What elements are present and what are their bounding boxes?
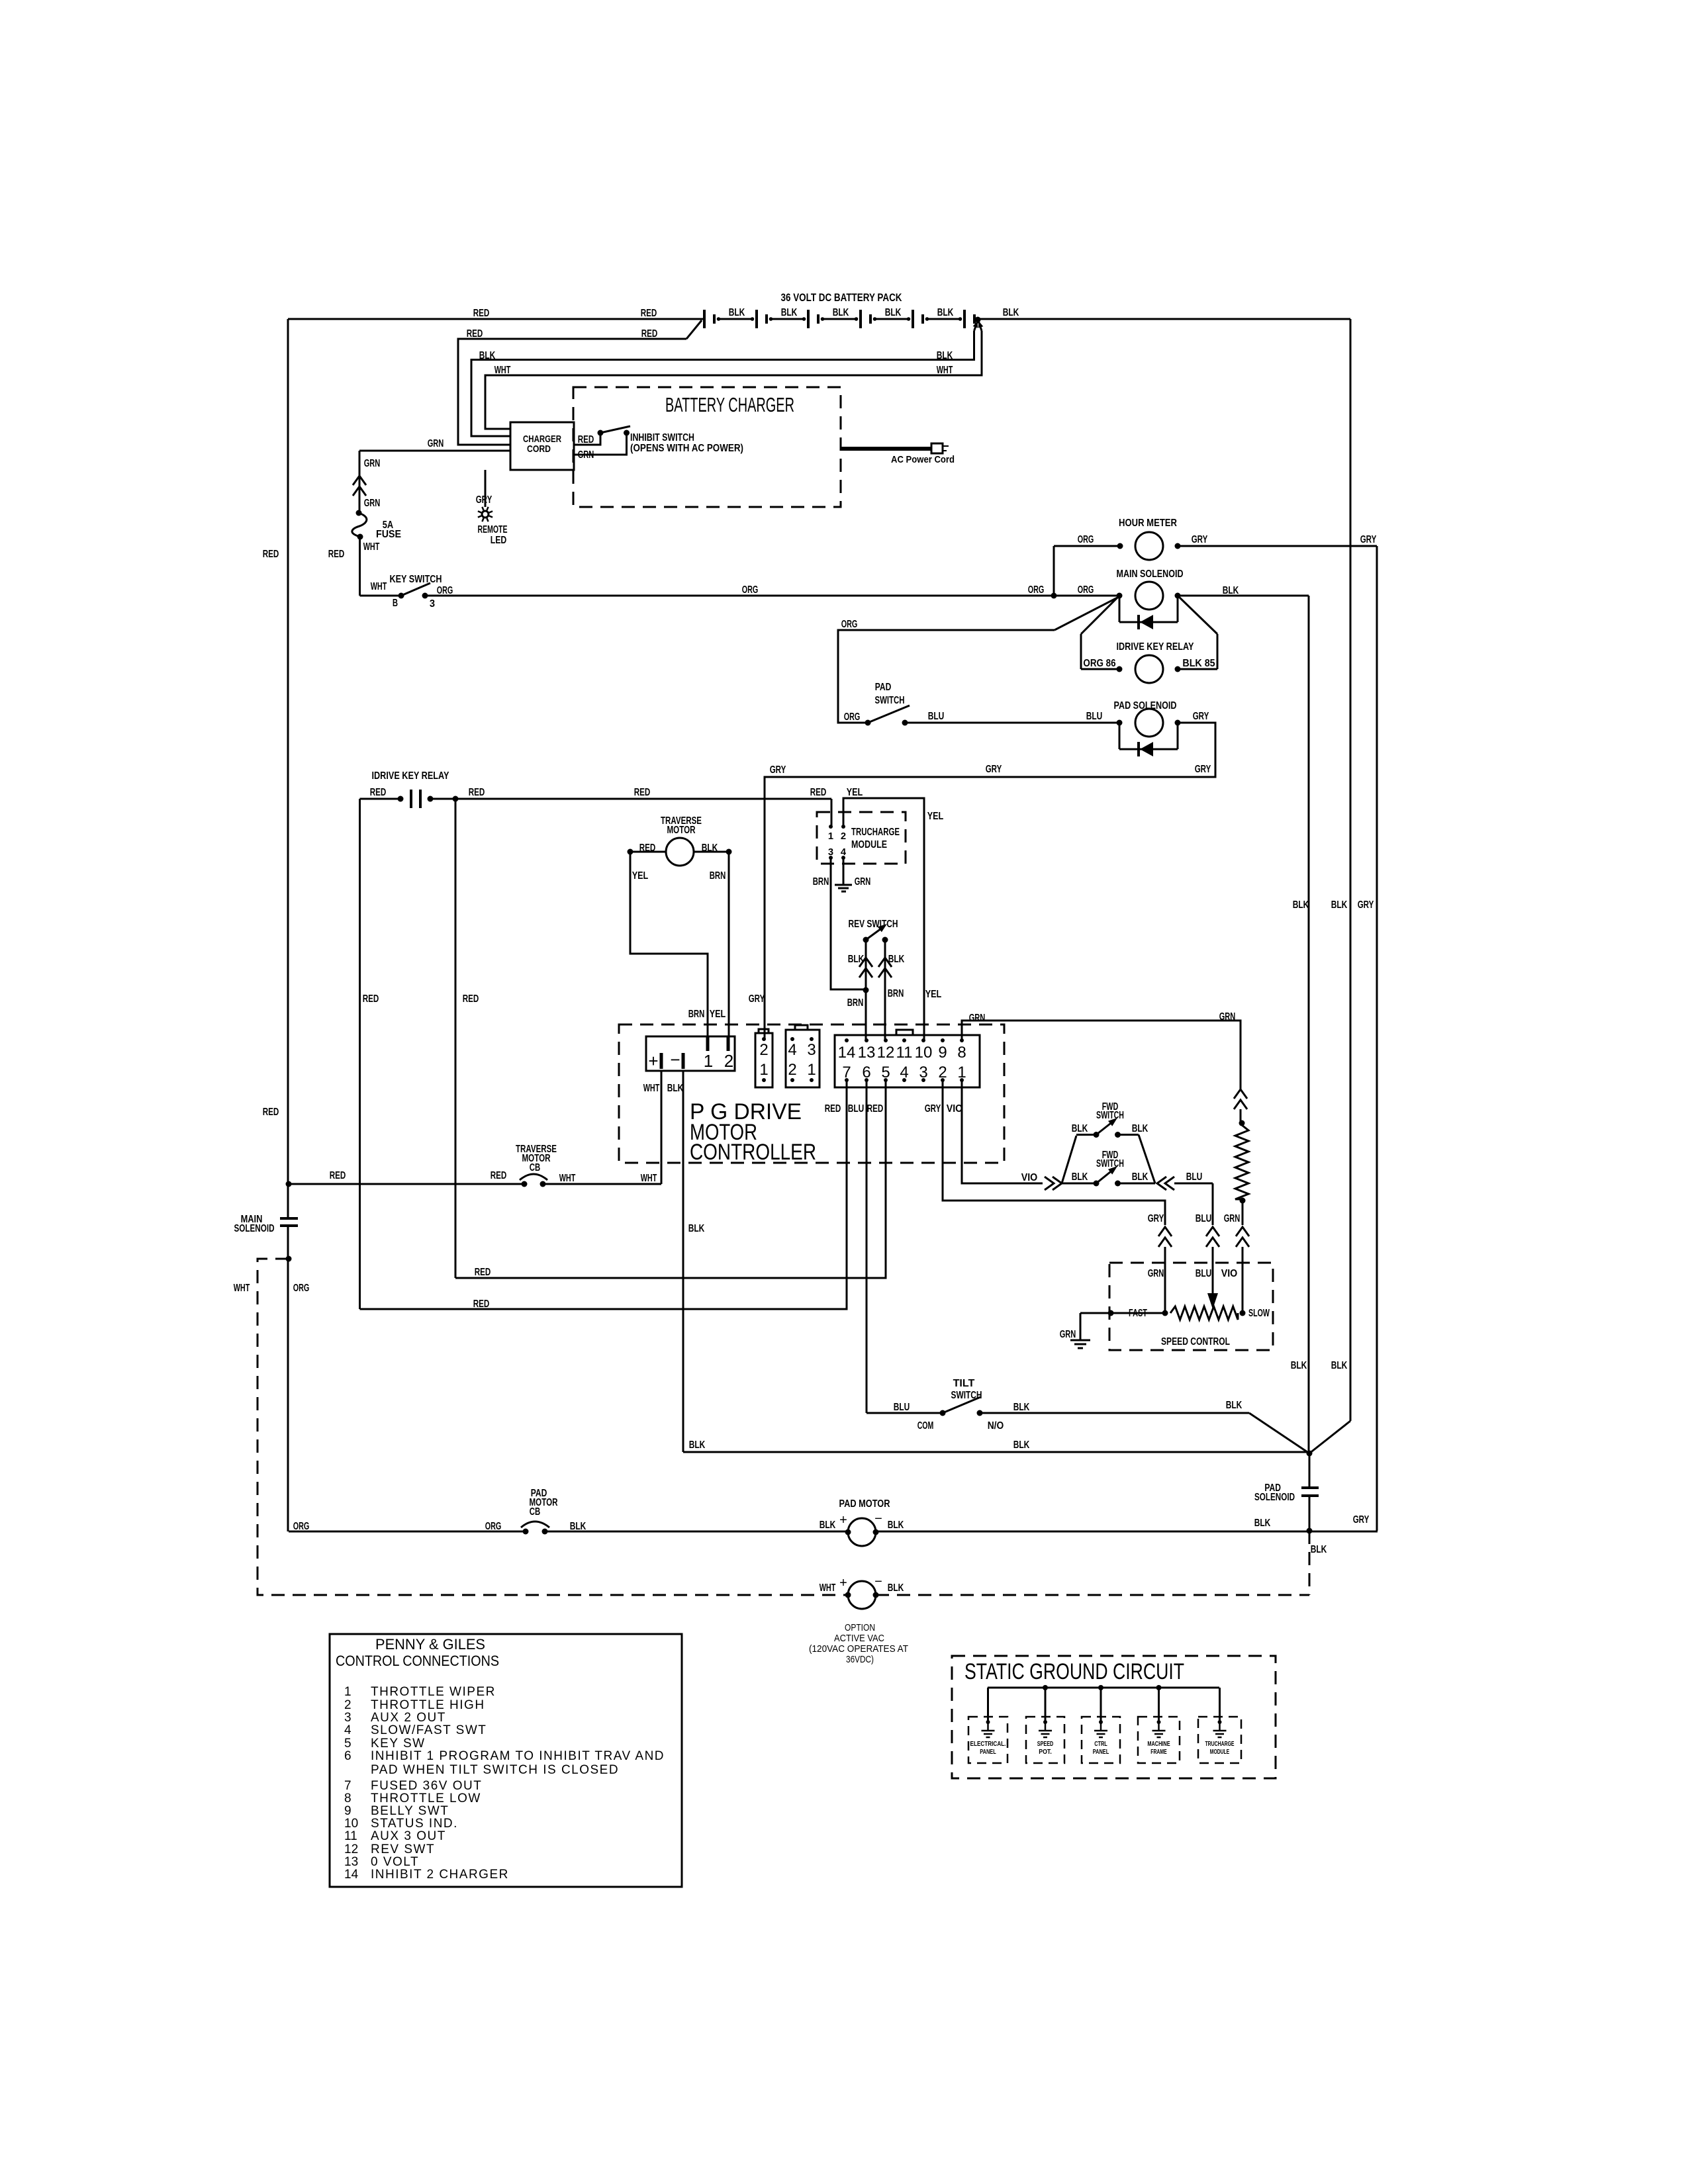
resistor R1 bottom terminal xyxy=(1240,1198,1246,1204)
svg-text:WHT: WHT xyxy=(363,541,380,553)
svg-text:SWITCH: SWITCH xyxy=(1096,1110,1124,1121)
label IDRIVE KEY RELAY xyxy=(1117,641,1194,653)
connector chevron BLU 1 xyxy=(1157,1177,1166,1190)
battery cell 5 long plate xyxy=(912,310,914,328)
label BLU xyxy=(894,1402,910,1413)
wire junction to fwd switch upper xyxy=(1062,1136,1076,1183)
idrive key relay coil K2 xyxy=(1135,655,1163,683)
label REMOTE xyxy=(478,524,508,535)
label 36VDC xyxy=(846,1654,874,1665)
relay enclosure to coil left xyxy=(1081,668,1119,670)
svg-text:(120VAC OPERATES AT: (120VAC OPERATES AT xyxy=(809,1643,908,1655)
svg-text:GRY: GRY xyxy=(1360,534,1377,545)
label RED xyxy=(473,308,490,319)
svg-text:ORG: ORG xyxy=(742,584,759,596)
label WHT xyxy=(494,365,511,376)
ground box label SPEED xyxy=(1037,1741,1054,1748)
label GRN xyxy=(1224,1213,1241,1224)
svg-text:PANEL: PANEL xyxy=(980,1749,996,1756)
svg-text:RED: RED xyxy=(634,787,651,798)
list item 6 text xyxy=(371,1749,665,1763)
svg-text:BLK: BLK xyxy=(1293,899,1309,911)
relay enclosure diagonal left xyxy=(1081,596,1119,634)
label RED xyxy=(263,1107,279,1118)
svg-text:MODULE: MODULE xyxy=(851,839,887,850)
list item 12 number xyxy=(344,1843,358,1856)
wire BRN trucharge pin 3 xyxy=(831,858,866,989)
label MOTOR xyxy=(667,825,696,836)
terminal label - xyxy=(670,1050,680,1069)
wire GRN resistor to slow xyxy=(1242,1201,1244,1225)
trucharge pin 4 dot xyxy=(841,856,845,860)
label RED xyxy=(363,993,379,1005)
polarity - xyxy=(874,1512,882,1526)
connector chevron GRN 2 xyxy=(353,486,366,496)
wire WHT charger sense xyxy=(485,331,982,429)
wire GRN trucharge pin 4 to ground xyxy=(843,858,845,884)
svg-text:CONTROL CONNECTIONS: CONTROL CONNECTIONS xyxy=(336,1653,499,1669)
label BRN xyxy=(813,876,829,887)
svg-text:RED: RED xyxy=(370,787,387,798)
label SWITCH xyxy=(875,695,905,706)
svg-text:PENNY & GILES: PENNY & GILES xyxy=(375,1636,485,1653)
battery cell 6 short plate xyxy=(973,314,976,324)
pin 3 bottom dot xyxy=(921,1078,925,1082)
diode D1 lead left xyxy=(1119,596,1121,622)
label BLK xyxy=(833,307,849,318)
list item 4 number xyxy=(344,1723,352,1737)
list item 11 text xyxy=(371,1829,446,1843)
wire GRY hour meter to right bus xyxy=(1178,545,1377,547)
wire YEL traverse motor to pin 1 xyxy=(630,852,708,1036)
svg-text:3: 3 xyxy=(807,1041,816,1059)
label RED xyxy=(810,787,827,798)
label MAIN xyxy=(241,1214,263,1225)
wire BLK down to ground junction xyxy=(1308,596,1310,1453)
svg-text:RED: RED xyxy=(867,1103,884,1115)
svg-text:SPEED: SPEED xyxy=(1037,1741,1054,1748)
svg-text:2: 2 xyxy=(841,831,846,842)
svg-text:BLK: BLK xyxy=(1132,1171,1149,1183)
trucharge pin 3 dot xyxy=(829,856,833,860)
svg-text:+: + xyxy=(839,1513,847,1527)
svg-text:WHT: WHT xyxy=(641,1173,657,1184)
ground symbol speed pot bar2 xyxy=(1041,1733,1050,1735)
svg-text:BLU: BLU xyxy=(1196,1268,1212,1279)
ground drop electrical panel xyxy=(987,1688,989,1721)
diode D2 cathode bar xyxy=(1137,742,1140,756)
key switch terminal B xyxy=(399,593,404,599)
svg-text:2: 2 xyxy=(344,1698,352,1712)
node BLK ground junction xyxy=(1307,1451,1313,1457)
wire to fwd switch 1 left xyxy=(1076,1134,1096,1136)
relay enclosure left side xyxy=(1080,634,1082,669)
label BLK xyxy=(688,1223,705,1234)
pin number 1 xyxy=(704,1051,713,1071)
wire RED left branch down xyxy=(359,799,361,1309)
pin number 1 xyxy=(957,1064,966,1081)
label ORG xyxy=(841,619,858,630)
pin 6 bottom dot xyxy=(865,1078,868,1082)
svg-text:AUX 2 OUT: AUX 2 OUT xyxy=(371,1711,446,1725)
svg-text:4: 4 xyxy=(344,1723,352,1737)
label VIO xyxy=(947,1103,963,1115)
svg-text:BLK: BLK xyxy=(888,1520,904,1531)
svg-text:4: 4 xyxy=(788,1041,796,1059)
wire RED pin 5 xyxy=(455,1080,886,1278)
svg-text:REV SWT: REV SWT xyxy=(371,1843,435,1856)
pin number 5 xyxy=(881,1064,890,1081)
inhibit switch contact A xyxy=(624,430,630,436)
main solenoid terminal left xyxy=(1117,593,1123,599)
wire GRY to FAST xyxy=(1164,1247,1166,1313)
ground bus wire xyxy=(988,1687,1219,1689)
svg-text:GRN: GRN xyxy=(428,438,444,449)
wire GRN to charger cord xyxy=(359,450,510,452)
ground symbol machine frame bar3 xyxy=(1157,1737,1161,1739)
wire BLK battery link 3 xyxy=(823,318,857,320)
svg-text:5: 5 xyxy=(344,1737,352,1751)
wire BLK from - terminal xyxy=(682,1071,684,1452)
svg-text:BLK: BLK xyxy=(1013,1439,1030,1451)
relay contact terminal right xyxy=(428,796,434,802)
svg-text:BLK: BLK xyxy=(1013,1402,1030,1413)
svg-text:3: 3 xyxy=(344,1711,352,1725)
wire RED pin 7 fused 36V xyxy=(360,1080,847,1309)
label BLK xyxy=(888,1520,904,1531)
svg-text:BRN: BRN xyxy=(710,870,726,882)
wire left bus between xyxy=(287,1226,289,1259)
pin number 2 xyxy=(841,831,846,842)
svg-text:BATTERY CHARGER: BATTERY CHARGER xyxy=(665,393,794,416)
svg-text:2: 2 xyxy=(788,1061,796,1079)
svg-text:YEL: YEL xyxy=(925,989,942,1000)
list item 6 number xyxy=(344,1749,352,1763)
wire BLU to wiper xyxy=(1212,1247,1214,1295)
label BLK xyxy=(888,954,905,965)
traverse motor M4 xyxy=(666,838,694,866)
label BLK xyxy=(667,1083,684,1094)
label BLU xyxy=(848,1103,865,1115)
pin number 4 xyxy=(841,846,847,858)
connector 2-1 bottom dot xyxy=(762,1078,766,1082)
label SOLENOID xyxy=(1254,1492,1295,1503)
diode D2 lead right xyxy=(1177,723,1179,749)
svg-text:WHT: WHT xyxy=(820,1582,836,1594)
list item 14 text xyxy=(371,1868,509,1882)
pin 11 top dot xyxy=(902,1038,906,1042)
list item 3 text xyxy=(371,1711,446,1725)
connector chevron rev right 1 xyxy=(878,958,892,967)
svg-text:RED: RED xyxy=(263,1107,279,1118)
label WHT xyxy=(559,1173,576,1184)
label RED xyxy=(467,328,483,340)
svg-text:1: 1 xyxy=(828,831,833,842)
wire RED to relay contact xyxy=(360,798,401,800)
svg-text:TRUCHARGE: TRUCHARGE xyxy=(851,827,900,838)
svg-text:BLK: BLK xyxy=(1072,1123,1088,1134)
svg-text:MOTOR: MOTOR xyxy=(667,825,696,836)
wire BLK CB to pad motor xyxy=(545,1531,848,1533)
connector chevron rev left 2 xyxy=(859,968,872,978)
label BLU xyxy=(1086,711,1103,722)
label BLK xyxy=(570,1521,586,1532)
ground lead machine frame xyxy=(1158,1722,1160,1730)
label CB xyxy=(530,1506,540,1518)
svg-text:2: 2 xyxy=(759,1041,768,1059)
svg-text:REV SWITCH: REV SWITCH xyxy=(849,919,898,930)
label RED xyxy=(328,549,345,560)
node ORG hour meter branch xyxy=(1051,593,1057,599)
wire BLK diagonal to junction xyxy=(1249,1413,1309,1453)
ground box label PANEL xyxy=(1093,1749,1109,1756)
label GRN xyxy=(855,876,871,887)
svg-text:GRN: GRN xyxy=(855,876,871,887)
pin number 9 xyxy=(938,1044,947,1062)
label VIO xyxy=(1021,1172,1038,1183)
label MODULE xyxy=(851,839,887,850)
pin number 11 xyxy=(896,1044,913,1062)
label BLK xyxy=(1331,1360,1348,1371)
fuse bottom terminal xyxy=(357,534,363,540)
AC power cord lead xyxy=(841,447,931,451)
wire GRY right bus down xyxy=(1376,546,1378,1531)
label BLK xyxy=(1003,307,1019,318)
battery cell 5 terminal dot xyxy=(925,317,929,321)
svg-text:BRN: BRN xyxy=(888,988,904,999)
label FWD xyxy=(1102,1101,1119,1113)
pad switch blade xyxy=(868,705,910,723)
list item 8 number xyxy=(344,1792,352,1805)
list item 4 text xyxy=(371,1723,487,1737)
svg-text:GRY: GRY xyxy=(1195,764,1211,775)
vac motor terminal left xyxy=(845,1592,851,1598)
ground symbol speed pot bar1 xyxy=(1039,1730,1052,1732)
ground terminal machine frame xyxy=(1157,1720,1161,1724)
connector chevron GRY 2 xyxy=(1158,1238,1172,1247)
svg-text:0 VOLT: 0 VOLT xyxy=(371,1855,419,1869)
svg-text:BLK: BLK xyxy=(937,307,954,318)
wire junction to pad solenoid coil xyxy=(1309,1453,1311,1487)
wire GRY to remote LED xyxy=(485,470,487,507)
svg-text:BLK: BLK xyxy=(1132,1123,1149,1134)
svg-text:RED: RED xyxy=(469,787,485,798)
pad solenoid plate top xyxy=(1301,1486,1319,1489)
svg-text:CONTROLLER: CONTROLLER xyxy=(690,1140,816,1165)
label BLK xyxy=(1254,1518,1271,1529)
pin number 3 xyxy=(919,1064,927,1081)
label GRY xyxy=(1148,1213,1164,1224)
list item 8 text xyxy=(371,1792,481,1805)
label SLOW xyxy=(1248,1308,1270,1319)
svg-text:RED: RED xyxy=(463,993,479,1005)
svg-text:7: 7 xyxy=(344,1779,352,1793)
pin 14 top dot xyxy=(845,1038,849,1042)
label SOLENOID xyxy=(234,1223,275,1234)
ground terminal electrical panel xyxy=(986,1720,990,1724)
label BLK xyxy=(689,1439,706,1451)
wire GRY pin 2 to speed control xyxy=(943,1080,1165,1225)
label BRN xyxy=(688,1009,705,1020)
wire WHT to key switch B xyxy=(360,595,402,597)
wire ORG to pad switch xyxy=(838,630,1055,723)
label RED xyxy=(634,787,651,798)
relay contact terminal left xyxy=(398,796,404,802)
ground symbol ctrl panel bar1 xyxy=(1094,1730,1107,1732)
wire GRN to resistor xyxy=(1240,1109,1242,1123)
label BLK xyxy=(937,307,954,318)
label BRN xyxy=(710,870,726,882)
main solenoid contact plate top xyxy=(280,1217,298,1220)
battery link dot 3 xyxy=(855,317,859,321)
label RED xyxy=(639,842,656,854)
svg-text:RED: RED xyxy=(467,328,483,340)
wire ORG left bus down xyxy=(287,1259,289,1531)
hour meter terminal left xyxy=(1117,543,1123,549)
svg-text:AC Power Cord: AC Power Cord xyxy=(891,454,955,465)
svg-text:ORG: ORG xyxy=(844,711,861,723)
title CONTROL CONNECTIONS xyxy=(336,1653,499,1669)
svg-text:ORG: ORG xyxy=(841,619,858,630)
pin number 10 xyxy=(915,1044,933,1062)
svg-text:CB: CB xyxy=(530,1162,540,1173)
battery cell 1 terminal dot xyxy=(717,317,721,321)
connector chevron GRN 4 xyxy=(1236,1238,1249,1247)
svg-text:GRN: GRN xyxy=(578,449,594,461)
svg-text:GRY: GRY xyxy=(1358,899,1374,911)
svg-text:BLK: BLK xyxy=(1291,1360,1307,1371)
svg-text:8: 8 xyxy=(344,1792,352,1805)
label CORD xyxy=(527,443,551,455)
wire dashed vac to junction xyxy=(876,1594,1309,1596)
ground symbol electrical panel bar2 xyxy=(984,1733,992,1735)
svg-text:BLK: BLK xyxy=(570,1521,586,1532)
label GRY xyxy=(1192,534,1208,545)
diode D1 lead right xyxy=(1177,596,1179,622)
pin 4 bottom dot xyxy=(902,1078,906,1082)
connector chevron VIO 2 xyxy=(1053,1177,1062,1190)
label RED xyxy=(491,1170,507,1181)
wire BLK battery link 5 xyxy=(927,318,961,320)
label GRY xyxy=(476,494,492,506)
terminal bar - xyxy=(682,1053,685,1069)
svg-text:HOUR METER: HOUR METER xyxy=(1119,518,1177,529)
label BRN xyxy=(888,988,904,999)
inhibit switch blade xyxy=(600,426,630,433)
svg-text:RED: RED xyxy=(491,1170,507,1181)
wire GRN pin 8 to resistor xyxy=(962,1021,1241,1089)
traverse motor CB arc xyxy=(520,1174,547,1180)
label BLK xyxy=(702,842,718,854)
svg-text:+: + xyxy=(648,1051,658,1071)
svg-text:FUSE: FUSE xyxy=(376,529,401,540)
label GRN xyxy=(364,498,381,509)
list item 2 text xyxy=(371,1698,485,1712)
motor terminal box xyxy=(646,1036,735,1071)
relay enclosure diagonal right xyxy=(1178,596,1217,634)
wire BLK diagonal to ground junction xyxy=(1309,1421,1350,1453)
wire GRN to inhibit switch xyxy=(574,433,627,455)
battery link dot 5 xyxy=(959,317,962,321)
label BLK xyxy=(1132,1171,1149,1183)
trucharge pin 2 dot xyxy=(841,825,845,829)
list item 7 number xyxy=(344,1779,352,1793)
label BLU xyxy=(928,711,945,722)
svg-text:BLU: BLU xyxy=(1086,711,1103,722)
wire BLK pad motor to junction xyxy=(876,1531,1378,1533)
svg-text:TILT: TILT xyxy=(953,1378,975,1389)
wire WHT CB to controller xyxy=(543,1183,661,1185)
wire BLK to ground junction xyxy=(683,1451,1309,1453)
connector 43 top dot b xyxy=(810,1037,814,1041)
svg-text:12: 12 xyxy=(877,1044,895,1062)
label RED xyxy=(825,1103,841,1115)
battery cell 1 short plate xyxy=(713,314,716,324)
svg-text:BLK: BLK xyxy=(689,1439,706,1451)
svg-text:ORG: ORG xyxy=(437,585,453,596)
label GRN xyxy=(364,458,381,469)
connector 2-1 box xyxy=(755,1033,773,1087)
label GRN xyxy=(1060,1329,1076,1340)
wire BLK dashed to vac option xyxy=(1309,1531,1311,1595)
svg-text:3: 3 xyxy=(828,846,833,858)
svg-text:YEL: YEL xyxy=(927,811,944,822)
terminal bar + xyxy=(660,1053,663,1069)
label BLK xyxy=(1293,899,1309,911)
node RED main bus tap xyxy=(286,1181,292,1187)
polarity + xyxy=(839,1513,847,1527)
speed pot SLOW terminal xyxy=(1240,1310,1246,1316)
svg-text:PAD: PAD xyxy=(875,682,892,693)
ground symbol trucharge module bar3 xyxy=(1218,1737,1222,1739)
label PAD MOTOR xyxy=(839,1498,890,1510)
label KEY SWITCH xyxy=(390,574,442,585)
wire VIO pin 1 to fwd switch xyxy=(962,1080,1043,1183)
label FWD xyxy=(1102,1150,1119,1161)
svg-text:CTRL: CTRL xyxy=(1094,1741,1107,1748)
list item 5 text xyxy=(371,1737,426,1751)
svg-text:BLK: BLK xyxy=(1311,1544,1327,1555)
svg-text:9: 9 xyxy=(344,1804,352,1818)
label BLK xyxy=(937,350,953,361)
wire BLK main solenoid to bus xyxy=(1178,595,1309,597)
svg-text:INHIBIT SWITCH: INHIBIT SWITCH xyxy=(630,432,694,443)
pad solenoid terminal left xyxy=(1117,720,1123,726)
pin 2 bottom dot xyxy=(941,1078,945,1082)
svg-text:RED: RED xyxy=(263,549,279,560)
label PAD xyxy=(531,1488,547,1499)
svg-text:BLK: BLK xyxy=(885,307,902,318)
svg-text:GRY: GRY xyxy=(1192,534,1208,545)
svg-text:REMOTE: REMOTE xyxy=(478,524,508,535)
battery cell 1 long plate xyxy=(703,310,706,328)
label RED xyxy=(578,434,594,445)
svg-text:SOLENOID: SOLENOID xyxy=(1254,1492,1295,1503)
svg-text:SWITCH: SWITCH xyxy=(1096,1158,1124,1169)
AC plug prong 2 xyxy=(943,450,947,451)
svg-text:YEL: YEL xyxy=(632,870,649,882)
pin number 4 xyxy=(900,1064,908,1081)
svg-text:SOLENOID: SOLENOID xyxy=(234,1223,275,1234)
svg-text:BRN: BRN xyxy=(813,876,829,887)
svg-text:GRY: GRY xyxy=(1148,1213,1164,1224)
connector tab xyxy=(759,1029,769,1033)
label GRY xyxy=(770,764,786,776)
list item 6b text xyxy=(371,1763,619,1777)
label BLK xyxy=(1223,585,1239,596)
label CHARGER xyxy=(523,433,561,445)
svg-text:BLK: BLK xyxy=(888,954,905,965)
